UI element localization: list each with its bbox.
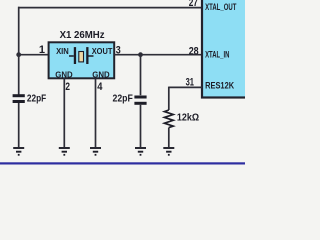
svg-text:X1 26MHz: X1 26MHz [60, 30, 105, 41]
wire: pin 31 from resistor to IC [169, 86, 202, 88]
svg-text:XIN: XIN [56, 46, 69, 56]
svg-text:12kΩ: 12kΩ [177, 112, 199, 123]
wire: left vertical column (net to XIN / C1) [18, 7, 20, 95]
svg-text:1: 1 [39, 44, 45, 56]
node junction at left column / pin 1 [16, 52, 21, 57]
svg-text:GND: GND [55, 69, 72, 79]
wire: pin 3 / XTAL_IN net to IC pin 28 [114, 54, 202, 56]
crystal symbol leads [69, 55, 94, 57]
capacitor C1 top lead (shared with left column) [18, 94, 20, 96]
wire: resistor top lead [168, 87, 170, 110]
svg-text:27: 27 [189, 0, 198, 9]
svg-text:XOUT: XOUT [92, 46, 113, 56]
svg-text:22pF: 22pF [113, 94, 133, 105]
wire: C1 bottom lead to ground [18, 103, 20, 147]
node junction on XTAL_IN net (C2 tap) [138, 52, 143, 57]
ground under pin 2 [59, 148, 70, 155]
wire: top horizontal from left column to IC pin 27 [18, 7, 202, 9]
IC U1 body (right block) [202, 0, 249, 98]
wire: resistor bottom lead to ground [168, 128, 170, 147]
ground under C1 [13, 148, 24, 155]
svg-text:31: 31 [186, 77, 194, 89]
ground under C2 [135, 148, 146, 155]
ground under pin 4 [90, 148, 101, 155]
wire: pin 4 down to ground [95, 79, 97, 148]
ground under resistor [163, 148, 174, 155]
svg-text:28: 28 [189, 46, 199, 58]
wire: C2 top lead from XTAL_IN net [140, 55, 142, 95]
capacitor C1 plates [13, 94, 25, 97]
wire: pin 2 down to ground [63, 79, 65, 148]
wire: C2 bottom lead to ground [140, 105, 142, 147]
svg-text:RES12K: RES12K [205, 81, 234, 91]
crystal X1 box body [49, 42, 115, 78]
capacitor C2 plates [134, 96, 146, 99]
svg-text:XTAL_IN: XTAL_IN [205, 50, 230, 60]
crystal symbol right plate [86, 47, 88, 64]
svg-text:22pF: 22pF [27, 93, 46, 104]
wire: pin 1 stub to crystal box [19, 54, 49, 56]
figure rule (bottom blue line) [0, 162, 245, 164]
svg-text:XTAL_OUT: XTAL_OUT [205, 2, 237, 12]
crystal symbol left plate [74, 47, 76, 64]
crystal symbol quartz body [79, 52, 84, 62]
svg-text:GND: GND [92, 69, 109, 79]
svg-text:4: 4 [97, 81, 103, 93]
svg-text:2: 2 [65, 81, 70, 93]
resistor body 12k zigzag [164, 110, 173, 128]
